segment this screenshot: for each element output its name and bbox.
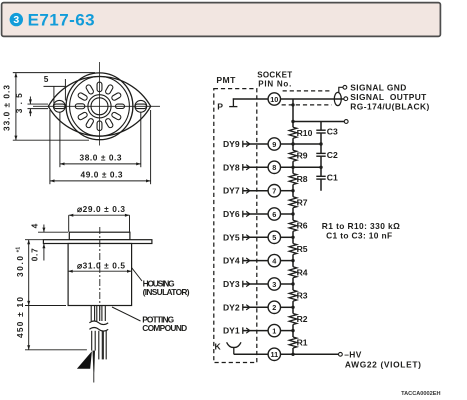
svg-text:2: 2	[272, 303, 276, 312]
wire pin 2 to divider rail	[281, 306, 294, 308]
top view: left mounting slot	[54, 104, 65, 109]
terminal top rail	[344, 120, 348, 124]
svg-text:DY6: DY6	[223, 209, 240, 219]
svg-text:C1: C1	[327, 173, 338, 183]
capacitor C3	[316, 129, 325, 131]
wire pin 8 to divider rail	[281, 166, 322, 168]
svg-text:5: 5	[272, 233, 276, 242]
svg-text:49.0 ± 0.3: 49.0 ± 0.3	[81, 169, 123, 179]
svg-text:R9: R9	[297, 151, 308, 161]
svg-text:R1 to R10: 330 kΩ: R1 to R10: 330 kΩ	[322, 221, 400, 231]
header bar	[2, 3, 441, 37]
top view: pin hole 7	[77, 112, 88, 121]
wire P to pin 10	[233, 98, 268, 100]
svg-text:⌀29.0 ± 0.3: ⌀29.0 ± 0.3	[77, 204, 125, 214]
socket pin 5	[268, 231, 280, 243]
resistor R10	[289, 127, 297, 138]
socket pin 2	[268, 301, 280, 313]
dimension 3.5 (slot width)	[29, 97, 31, 105]
svg-text:3: 3	[272, 280, 276, 289]
top view: pin hole 3	[97, 82, 102, 92]
junction dots	[291, 103, 322, 356]
wire top rail to GND terminal	[293, 121, 344, 123]
side view: cable break wavy lines	[89, 321, 108, 325]
svg-text:DY7: DY7	[223, 186, 240, 196]
side view: center wire needle	[93, 351, 96, 373]
resistor R6	[289, 220, 297, 231]
svg-text:C3: C3	[327, 127, 338, 137]
svg-text:3.5: 3.5	[14, 93, 24, 113]
resistor R2	[289, 314, 297, 325]
dimension 33.0 ± 0.3 (height)	[15, 73, 17, 141]
svg-text:38.0 ± 0.3: 38.0 ± 0.3	[80, 152, 122, 162]
wire DY7 to pin 7	[243, 190, 268, 192]
svg-text:DY5: DY5	[223, 232, 240, 242]
svg-text:DY1: DY1	[223, 326, 240, 336]
svg-text:SIGNAL OUTPUT: SIGNAL OUTPUT	[350, 92, 427, 102]
svg-text:R4: R4	[297, 267, 308, 277]
top view: pin hole 4	[85, 84, 94, 95]
svg-text:R5: R5	[297, 244, 308, 254]
socket pin 7	[268, 185, 280, 197]
svg-text:P: P	[217, 102, 223, 112]
socket boundary dashed (output exit) upper	[283, 90, 332, 92]
wire DY1 to pin 1	[243, 330, 268, 332]
top view: socket outer circle	[66, 73, 133, 140]
wire pin 9 to divider rail	[281, 143, 322, 145]
side view: black cable-end pointer	[77, 351, 92, 369]
top view: pin hole 2	[105, 84, 114, 95]
wire DY3 to pin 3	[243, 283, 268, 285]
svg-text:R7: R7	[297, 197, 308, 207]
svg-text:DY8: DY8	[223, 162, 240, 172]
resistor R4	[289, 267, 297, 278]
wire DY8 to pin 8	[243, 166, 268, 168]
wire pin 11 to -HV terminal	[281, 353, 339, 355]
svg-text:R2: R2	[297, 314, 308, 324]
terminal SIGNAL OUTPUT	[344, 97, 348, 101]
socket pin 8	[268, 161, 280, 173]
socket pin 10	[268, 93, 280, 105]
top view: right mounting slot	[135, 104, 146, 109]
top view: key slot	[116, 104, 125, 108]
top view: pin hole 1	[111, 92, 122, 101]
svg-text:450 ± 10: 450 ± 10	[15, 297, 25, 338]
resistor R1	[289, 337, 297, 348]
svg-text:C1 to C3: 10 nF: C1 to C3: 10 nF	[326, 231, 392, 241]
resistor R3	[289, 290, 297, 301]
svg-text:R10: R10	[297, 128, 313, 138]
svg-text:AWG22 (VIOLET): AWG22 (VIOLET)	[345, 360, 421, 370]
svg-text:33.0 ± 0.3: 33.0 ± 0.3	[1, 85, 11, 131]
svg-text:0.7: 0.7	[29, 248, 39, 261]
socket pin 4	[268, 254, 280, 266]
top view: center line horizontal	[33, 105, 160, 107]
wire DY9 to pin 9	[243, 143, 268, 145]
top view: pin hole 10	[105, 118, 114, 129]
svg-text:R1: R1	[297, 338, 308, 348]
resistor R9	[289, 150, 297, 161]
socket pin 6	[268, 208, 280, 220]
svg-text:1: 1	[272, 326, 276, 335]
side view: lead wires upper segment	[90, 306, 92, 322]
svg-text:SOCKET: SOCKET	[257, 71, 292, 80]
svg-text:COMPOUND: COMPOUND	[142, 323, 187, 333]
svg-text:30.0: 30.0	[15, 256, 25, 277]
terminal SIGNAL GND	[343, 85, 347, 89]
svg-text:TACCA0002EH: TACCA0002EH	[401, 391, 440, 397]
svg-text:RG-174/U(BLACK): RG-174/U(BLACK)	[350, 102, 429, 112]
resistor R5	[289, 244, 297, 255]
svg-text:4: 4	[30, 223, 40, 228]
terminal -HV	[339, 352, 343, 356]
side view: mounting flange	[43, 240, 151, 244]
side view: housing body	[68, 244, 132, 306]
svg-text:PMT: PMT	[216, 75, 236, 85]
wire capacitor column	[320, 122, 322, 191]
svg-text:DY9: DY9	[223, 139, 240, 149]
svg-text:+1: +1	[16, 247, 22, 253]
wire DY2 to pin 2	[243, 306, 268, 308]
top view: guide pin circle outer	[88, 95, 111, 118]
PMT dashed box	[214, 89, 257, 363]
socket pin 1	[268, 324, 280, 336]
dimension 49.0 ± 0.3 (overall width)	[49, 110, 51, 184]
top view: center line vertical	[99, 62, 101, 146]
wire pin 6 to divider rail	[281, 213, 294, 215]
wire pin 5 to divider rail	[281, 236, 294, 238]
resistor R7	[289, 197, 297, 208]
top view: pin hole 11	[111, 112, 122, 121]
wire K to pin 11	[234, 353, 268, 355]
svg-text:(INSULATOR): (INSULATOR)	[143, 287, 190, 297]
svg-text:⌀31.0 ± 0.5: ⌀31.0 ± 0.5	[77, 261, 125, 271]
svg-text:5: 5	[44, 74, 49, 84]
svg-text:C2: C2	[327, 150, 338, 160]
side view: lead wires lower segment	[91, 331, 93, 351]
label POTTING COMPOUND with leader	[112, 307, 141, 321]
svg-text:3: 3	[13, 14, 19, 26]
svg-text:R3: R3	[297, 291, 308, 301]
svg-text:E717-63: E717-63	[28, 11, 95, 30]
top view: socket flange outline (eye shape)	[48, 77, 150, 137]
svg-text:10: 10	[270, 95, 278, 104]
side view: socket top plate	[69, 232, 130, 240]
wire pin 4 to divider rail	[281, 260, 294, 262]
label HOUSING (INSULATOR) with leader	[132, 268, 143, 282]
wire pin 10 to coax	[281, 98, 345, 100]
svg-text:–HV: –HV	[344, 350, 361, 360]
resistor R8	[289, 174, 297, 185]
wire pin 1 to divider rail	[281, 330, 294, 332]
top view: pin hole 5	[77, 92, 88, 101]
svg-text:DY3: DY3	[223, 279, 240, 289]
top view: pin hole 8	[85, 118, 94, 129]
coax cable cross-section symbol	[334, 92, 341, 105]
svg-text:8: 8	[272, 163, 276, 172]
wire DY6 to pin 6	[243, 213, 268, 215]
dimension 38.0 ± 0.3 (mounting hole pitch)	[59, 113, 61, 168]
header number badge	[10, 13, 23, 26]
svg-text:K: K	[215, 342, 222, 352]
svg-text:SIGNAL GND: SIGNAL GND	[350, 82, 406, 92]
svg-text:6: 6	[272, 210, 276, 219]
wire pin 3 to divider rail	[281, 283, 294, 285]
socket pin 9	[268, 138, 280, 150]
top view: right mounting ear circle	[135, 100, 147, 112]
capacitor C1	[316, 175, 325, 177]
top view: pin hole 6	[75, 104, 85, 109]
svg-text:R8: R8	[297, 174, 308, 184]
wire pin 7 to divider rail	[281, 190, 294, 192]
socket pin 3	[268, 278, 280, 290]
svg-text:PIN No.: PIN No.	[258, 79, 291, 88]
wire coax shield to SIGNAL GND terminal	[339, 87, 343, 92]
side view: center line (dash-dot)	[99, 227, 101, 310]
svg-text:7: 7	[272, 187, 276, 196]
top view: pin hole 9	[97, 121, 102, 131]
wire DY5 to pin 5	[243, 236, 268, 238]
wire divider rail segments	[292, 99, 294, 354]
top view: guide pin circle inner	[91, 98, 108, 115]
wire DY4 to pin 4	[243, 260, 268, 262]
socket pin 11	[268, 348, 280, 360]
top view: left mounting ear circle	[53, 100, 65, 112]
top view: socket inner circle	[70, 76, 130, 136]
svg-text:11: 11	[270, 350, 278, 359]
svg-text:R6: R6	[297, 221, 308, 231]
svg-text:DY4: DY4	[223, 256, 240, 266]
socket boundary dashed (output exit) lower	[282, 104, 332, 106]
svg-text:9: 9	[272, 140, 276, 149]
capacitor C2	[316, 152, 325, 154]
svg-text:DY2: DY2	[223, 302, 240, 312]
